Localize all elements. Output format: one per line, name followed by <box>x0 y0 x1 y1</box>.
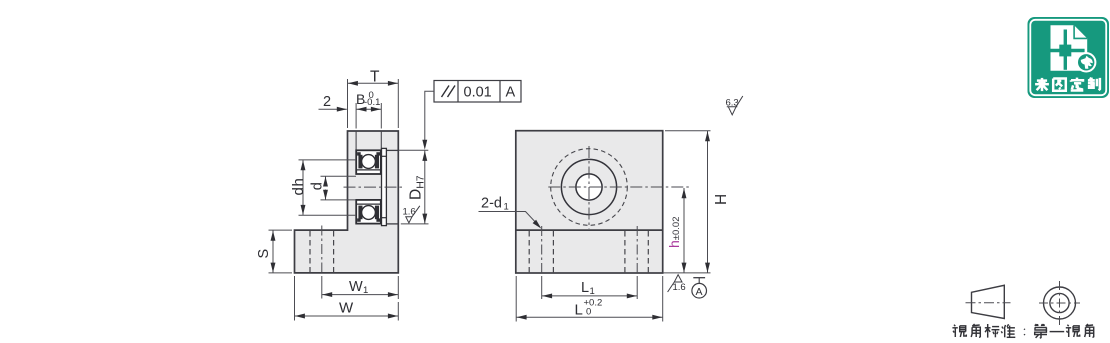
char 定 <box>1076 78 1079 80</box>
bore wall right above bearing <box>380 132 382 151</box>
dim D H7 <box>399 149 429 151</box>
来图定制 (hand drawn) <box>1035 78 1100 92</box>
char 视 <box>954 325 955 327</box>
block body <box>516 131 663 273</box>
bore dashed circle <box>551 149 628 226</box>
badge circle with horse head <box>1077 53 1095 71</box>
svg-text:d: d <box>310 182 326 190</box>
svg-text:W: W <box>339 300 354 317</box>
svg-text:1: 1 <box>363 285 368 296</box>
char 来 <box>1037 79 1047 82</box>
hidden hole in base (dashed) <box>309 231 311 272</box>
char ： <box>1023 328 1026 331</box>
counterbore solid circle <box>561 159 616 214</box>
bore wall left above bearing <box>355 132 357 151</box>
bore line right of ring bottom <box>387 223 399 225</box>
char 准 <box>1001 327 1004 329</box>
svg-text:2-d: 2-d <box>481 196 502 212</box>
roughness 1.6 under base <box>668 275 682 292</box>
circles view <box>1044 287 1076 319</box>
bore line right of ring top <box>387 149 399 151</box>
char 角 <box>972 324 974 326</box>
dim L +0.2/0 <box>515 276 517 322</box>
svg-text:1.6: 1.6 <box>673 282 686 293</box>
svg-text:L: L <box>575 302 583 319</box>
svg-text:A: A <box>696 286 703 298</box>
char 制 <box>1090 78 1091 80</box>
parallelism feature control frame <box>434 81 521 103</box>
svg-text:H: H <box>713 194 730 205</box>
dim H <box>665 130 711 132</box>
svg-text:W: W <box>349 279 363 295</box>
crosshair drawing on sheet <box>1064 30 1067 70</box>
retaining ring <box>382 148 387 225</box>
dim W1 <box>397 276 399 299</box>
caption 视角标准：第一视角 (hand-drawn glyphs) <box>952 324 1093 338</box>
document sheet <box>1051 25 1088 70</box>
svg-text:1: 1 <box>590 286 595 297</box>
svg-text:S: S <box>256 249 272 259</box>
leader from frame to bore <box>425 91 434 143</box>
L-shaped block body <box>295 131 399 273</box>
char 第 <box>1035 324 1036 326</box>
char 角 <box>1086 324 1088 326</box>
svg-text:T: T <box>370 69 380 86</box>
dim B 0/-0.1 <box>355 103 357 129</box>
dim T <box>347 79 349 128</box>
truncated cone <box>972 285 1005 318</box>
dim h±0.02 <box>683 188 685 273</box>
base holes dashed <box>528 231 530 272</box>
svg-text:L: L <box>581 280 589 296</box>
dim 2 <box>319 108 347 110</box>
dim W <box>294 276 296 321</box>
dim dh <box>299 159 357 161</box>
svg-text:0: 0 <box>586 307 591 318</box>
centerline vertical <box>588 146 590 229</box>
bearing upper half <box>356 150 381 174</box>
dim S <box>269 229 293 231</box>
svg-text:dh: dh <box>290 178 307 196</box>
svg-text:A: A <box>506 85 516 101</box>
dim d <box>321 175 357 177</box>
svg-text:DH7: DH7 <box>408 175 427 200</box>
svg-text:0.01: 0.01 <box>464 85 492 101</box>
centerline horizontal (extends right for dim h) <box>548 186 689 188</box>
hole axes chain <box>541 226 543 272</box>
shaft hole <box>576 174 602 200</box>
char 标 <box>987 324 989 338</box>
char 一 <box>1050 331 1065 333</box>
datum A <box>693 277 705 279</box>
dim L1 <box>541 276 543 299</box>
svg-text:2: 2 <box>323 94 331 110</box>
svg-text:h±0.02: h±0.02 <box>666 216 682 248</box>
svg-text:-0.1: -0.1 <box>364 97 380 108</box>
centerline bearing axis <box>344 186 404 188</box>
hole axis chain line <box>321 226 323 273</box>
base divider line <box>516 229 663 231</box>
char 图 <box>1053 79 1066 91</box>
svg-text:1.6: 1.6 <box>403 207 416 218</box>
bearing lower half <box>356 200 381 224</box>
svg-text:1: 1 <box>504 202 509 213</box>
char 视 <box>1067 325 1068 327</box>
